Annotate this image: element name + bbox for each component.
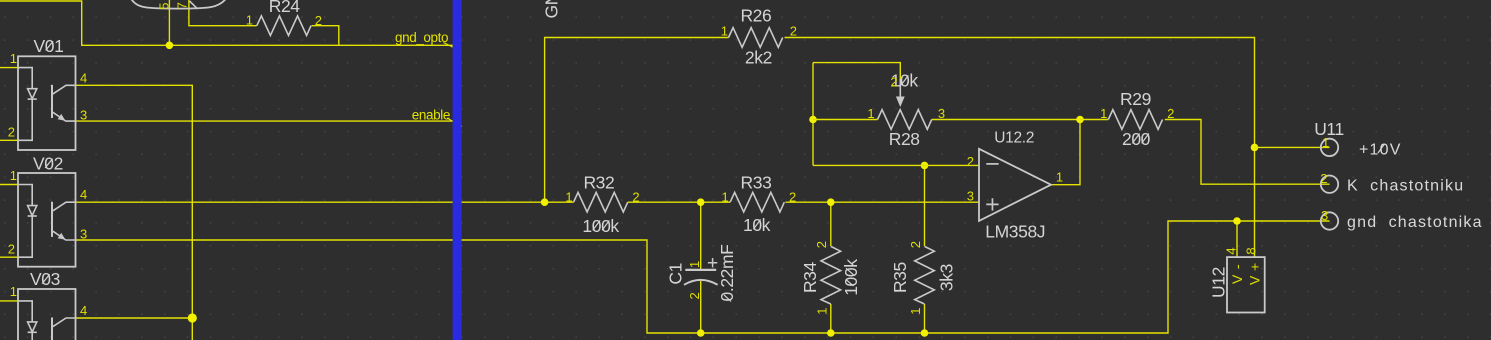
svg-text:2: 2	[8, 242, 15, 257]
svg-text:2k2: 2k2	[745, 48, 772, 68]
wire R32 pin 2 to R33 pin 1	[628, 201, 730, 203]
R33 value 10k	[743, 215, 771, 235]
svg-text:enable: enable	[412, 107, 450, 122]
wire pin 5 of cut-off component U? down to gnd_opto	[168, 0, 170, 45]
svg-text:3: 3	[1321, 208, 1328, 223]
wire C1 pin 1	[700, 202, 702, 269]
wire R28 pin 3 to output node	[932, 119, 1080, 121]
resistor R32	[574, 192, 628, 212]
resistor R24	[257, 16, 311, 36]
svg-text:1: 1	[565, 190, 572, 205]
wire VO3 pin 1	[0, 300, 18, 302]
svg-text:V: V	[1246, 275, 1262, 285]
svg-text:4: 4	[80, 303, 87, 318]
wire R28 wiper loop top	[813, 63, 900, 80]
svg-text:R28: R28	[889, 129, 920, 149]
svg-text:1: 1	[10, 51, 17, 66]
wire R26 pin 2 across to U12 pin 8 V+	[785, 38, 1255, 258]
wire R35 pin 2	[924, 165, 926, 246]
wire R24 pin 2 down to gnd_opto	[312, 26, 339, 45]
U12 pin names V- V+ rotated	[1229, 263, 1262, 285]
svg-text:1: 1	[10, 284, 17, 299]
R28 pin numbers	[867, 75, 945, 122]
enable label tick	[447, 118, 462, 127]
svg-text:4: 4	[80, 187, 87, 202]
svg-text:100k: 100k	[841, 259, 861, 296]
R29 value 200	[1122, 129, 1151, 149]
gnd_opto label tick	[444, 43, 457, 49]
svg-text:1: 1	[10, 168, 17, 183]
U12 pin numbers 4 8 rotated	[1223, 247, 1258, 254]
wire VO1 pin 4 to vertical bus	[76, 85, 193, 340]
svg-text:1: 1	[1100, 106, 1107, 121]
wire R33 pin 2 to op-amp pin 3	[785, 201, 979, 203]
IC U12 power box	[1227, 257, 1265, 312]
svg-text:1: 1	[246, 12, 253, 27]
wire R35 pin 1 to ground rail	[924, 304, 926, 333]
wire R34 pin 1 to ground rail	[830, 304, 832, 333]
svg-text:3: 3	[80, 227, 87, 242]
wire R34 pin 2	[830, 202, 832, 246]
svg-text:5: 5	[156, 3, 171, 10]
svg-text:1: 1	[867, 106, 874, 121]
svg-text:-: -	[1229, 264, 1245, 269]
svg-text:3k3: 3k3	[936, 264, 956, 291]
R29 pin numbers	[1100, 106, 1174, 121]
svg-text:2: 2	[908, 241, 923, 248]
svg-text:4: 4	[80, 70, 87, 85]
svg-text:2: 2	[1320, 171, 1327, 186]
C1 pin numbers rotated	[687, 261, 702, 300]
svg-text:100k: 100k	[582, 216, 619, 236]
connector U11 pin 1 circle	[1321, 139, 1338, 156]
wire U12 pin 4 V- stub	[1236, 221, 1238, 257]
resistor R29	[1108, 110, 1162, 130]
svg-text:3: 3	[80, 107, 87, 122]
svg-text:U12: U12	[1209, 267, 1229, 298]
node junction +10V	[1251, 144, 1259, 152]
svg-text:C1: C1	[665, 263, 685, 285]
connector U11 pin 2 circle	[1321, 176, 1338, 193]
wire VO1 pin 1	[0, 67, 18, 69]
R26 pin numbers	[721, 24, 797, 39]
wire top-left to gnd_opto net	[0, 1, 457, 45]
wire inverting input line to op-amp pin 2	[813, 164, 979, 166]
node junction GND at main line	[541, 198, 549, 206]
svg-text:1: 1	[687, 261, 702, 268]
wire node to R29 pin 1	[1080, 119, 1108, 121]
wire R28 pin 1	[813, 119, 878, 121]
wire C1 pin 2 to ground rail	[700, 281, 702, 333]
optocoupler VO1	[18, 56, 76, 150]
wire VO2 pin 2	[0, 256, 18, 258]
svg-text:2: 2	[632, 190, 639, 205]
svg-text:2: 2	[8, 125, 15, 140]
svg-text:2: 2	[315, 13, 322, 28]
wire op-amp output pin 1 up to feedback node	[1051, 120, 1080, 185]
svg-text:R33: R33	[741, 173, 772, 193]
svg-text:2: 2	[687, 292, 702, 299]
connector U11 pin 3 circle	[1321, 212, 1338, 229]
svg-text:R29: R29	[1120, 89, 1151, 109]
svg-text:GND: GND	[542, 0, 562, 19]
wire VO2 pin 4 main signal line to R32	[76, 201, 574, 203]
svg-text:7: 7	[175, 2, 190, 9]
svg-text:1: 1	[908, 307, 923, 314]
wire VO2 pin 3 to ground rail to gnd chastotnika	[76, 221, 1330, 333]
svg-text:1: 1	[1322, 135, 1329, 150]
resistor R26	[729, 28, 783, 48]
node junction R34 top	[827, 198, 835, 206]
svg-text:gnd chastotnika: gnd chastotnika	[1347, 214, 1483, 231]
wire pin 7 of cut-off component to resistor R24 pin 1	[189, 0, 257, 26]
node junction R35 top	[921, 162, 929, 170]
node junction on gnd_opto	[166, 42, 174, 50]
svg-text:R24: R24	[269, 0, 301, 16]
wire R29 pin 2 to U11 pin 2 K chastotniku	[1165, 120, 1330, 185]
svg-text:R26: R26	[740, 6, 771, 26]
op-amp U12.2 triangle	[979, 149, 1051, 221]
capacitor C1 polarity plus	[708, 258, 717, 267]
svg-text:2: 2	[789, 190, 796, 205]
resistor R35	[915, 246, 935, 304]
svg-text:V: V	[1229, 274, 1245, 284]
wire VO1 pin 2	[0, 139, 18, 141]
potentiometer R28 body	[878, 110, 932, 130]
C1 value 0.22mF rotated	[717, 245, 737, 302]
cut-off component pin numbers 5 and 7	[156, 2, 189, 10]
svg-text:R34: R34	[800, 261, 820, 293]
optocoupler VO3	[18, 289, 76, 340]
potentiometer R28 wiper arrow	[896, 79, 905, 107]
node junction C1 bottom	[697, 329, 705, 337]
wire VO1 pin 3 enable net	[76, 120, 457, 122]
R34 pin numbers rotated	[814, 241, 830, 315]
svg-text:R35: R35	[890, 262, 910, 293]
svg-text:2: 2	[814, 241, 829, 248]
wire +10V to U11 pin 1	[1255, 146, 1330, 148]
svg-text:3: 3	[938, 106, 945, 121]
R28 value 10k	[891, 71, 919, 91]
svg-text:2: 2	[1167, 106, 1174, 121]
svg-text:R32: R32	[583, 173, 614, 193]
U11 pin label +10V	[1359, 141, 1402, 158]
R32 pin numbers	[565, 190, 639, 205]
node junction output/feedback	[1076, 116, 1084, 124]
svg-text:1: 1	[721, 24, 728, 39]
svg-text:1: 1	[1056, 169, 1063, 184]
VO3 reference label	[30, 269, 60, 289]
capacitor C1 plates	[684, 270, 718, 285]
node junction gnd chastotnika	[1233, 217, 1241, 225]
svg-text:2: 2	[790, 24, 797, 39]
node junction R28 pin 1	[809, 116, 817, 124]
cut-off component body arc (top edge)	[131, 0, 227, 9]
VO1 reference label	[34, 36, 64, 56]
op-amp plus input mark	[986, 198, 998, 210]
wire VO2 pin 1	[0, 184, 18, 186]
svg-text:1: 1	[814, 307, 829, 314]
svg-text:0.22mF: 0.22mF	[717, 245, 737, 302]
wire R28 left vertical to inverting input	[812, 63, 814, 166]
U11 pin numbers	[1320, 135, 1329, 223]
op-amp pin numbers	[967, 154, 1063, 203]
svg-text:2: 2	[967, 154, 974, 169]
blue vertical page boundary line	[453, 0, 462, 340]
svg-text:8: 8	[1244, 247, 1259, 254]
VO1 pin numbers	[8, 51, 87, 140]
R35 pin numbers rotated	[908, 241, 923, 315]
svg-text:K chastotniku: K chastotniku	[1347, 177, 1464, 194]
optocoupler VO2	[18, 173, 76, 267]
R33 pin numbers	[721, 190, 796, 205]
svg-text:4: 4	[1223, 247, 1238, 254]
node junction R35 bottom	[921, 329, 929, 337]
node junction VO3 pin 4	[188, 313, 197, 322]
svg-text:2: 2	[890, 75, 897, 90]
wire GND net down to main line, and to R26 pin 1	[545, 38, 729, 203]
node junction C1 top	[697, 198, 705, 206]
R32 value 100k	[582, 216, 619, 236]
svg-text:+: +	[1246, 263, 1262, 271]
VO2 reference label	[33, 154, 63, 174]
node junction R34 bottom	[827, 329, 835, 337]
svg-text:gnd_opto: gnd_opto	[395, 30, 448, 45]
svg-text:U12.2: U12.2	[994, 130, 1034, 147]
resistor R33	[730, 192, 784, 212]
VO2 pin numbers	[8, 168, 87, 257]
VO3 pin numbers	[10, 284, 87, 318]
svg-text:3: 3	[967, 189, 974, 204]
op-amp minus input mark	[986, 163, 998, 165]
resistor R34	[821, 246, 841, 304]
wire VO3 pin 4 to vertical bus	[76, 317, 193, 319]
R24 pin numbers	[246, 12, 322, 28]
cut-off component inner emitter mark	[190, 1, 198, 9]
R34 value 100k rotated	[841, 259, 861, 296]
svg-text:1: 1	[721, 190, 728, 205]
svg-text:LM358J: LM358J	[985, 221, 1045, 241]
